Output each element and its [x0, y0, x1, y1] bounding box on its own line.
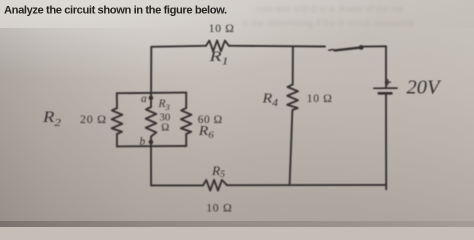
- wire branch R4 lower lead: [290, 110, 293, 185]
- svg-text:20 Ω: 20 Ω: [80, 112, 107, 126]
- svg-text:in the determining if the in: in the determining if the in circuit res…: [242, 18, 415, 28]
- wire R5 to bottom-right corner: [227, 184, 386, 186]
- handwritten reference labels: [42, 49, 443, 179]
- battery plus sign: [385, 80, 390, 85]
- svg-text:a: a: [141, 93, 147, 105]
- resistor R2: [112, 108, 123, 134]
- svg-text:10 Ω: 10 Ω: [209, 23, 235, 35]
- wire bottom left (node to R5): [151, 184, 203, 186]
- printed value labels: [80, 23, 333, 215]
- switch S1 blade: [335, 48, 361, 51]
- wire left branch upper lead: [116, 93, 118, 108]
- wire right branch upper lead: [185, 93, 187, 108]
- wire branch R4 upper lead: [292, 46, 294, 84]
- bleed-through text from reverse side: [242, 4, 415, 28]
- svg-text:Ω: Ω: [161, 122, 169, 134]
- resistor R5: [203, 180, 227, 191]
- wire middle branch lower lead through node b to bottom wire: [150, 137, 152, 186]
- wire right branch lower lead: [185, 134, 187, 146]
- switch S1 contact dash: [329, 49, 334, 52]
- svg-text:10 Ω: 10 Ω: [206, 201, 232, 215]
- wire middle branch upper lead (node a): [150, 93, 152, 107]
- wire right vertical to battery: [385, 46, 387, 87]
- wire switch to top-right corner: [364, 45, 386, 47]
- wire R1 to switch: [229, 45, 325, 48]
- svg-text:20V: 20V: [407, 77, 443, 99]
- wire battery to bottom-right corner: [385, 94, 387, 190]
- resistor R1: [206, 40, 229, 51]
- svg-text:Analyze the circuit shown in t: Analyze the circuit shown in the figure …: [4, 4, 227, 16]
- node a junction dot: [149, 96, 154, 101]
- resistor R4: [287, 85, 298, 111]
- wire left branch lower lead: [116, 134, 118, 146]
- resistor R6: [181, 108, 192, 134]
- switch S1 dot: [359, 45, 364, 50]
- wire left vertical from top wire to node a: [150, 47, 152, 93]
- svg-text:10 Ω: 10 Ω: [307, 93, 333, 105]
- wire parallel-box top rail: [117, 92, 186, 95]
- battery V1 negative plate: [379, 92, 392, 95]
- resistor R3: [146, 107, 157, 137]
- wire parallel-box bottom rail: [117, 145, 186, 147]
- svg-text:b: b: [140, 136, 146, 148]
- node b junction dot: [149, 140, 154, 145]
- wire top-left horizontal (to R1): [151, 46, 206, 47]
- battery V1 positive plate: [374, 87, 397, 89]
- svg-text:sum and 100 Ω in a. A wire of: sum and 100 Ω in a. A wire of the me: [256, 4, 403, 14]
